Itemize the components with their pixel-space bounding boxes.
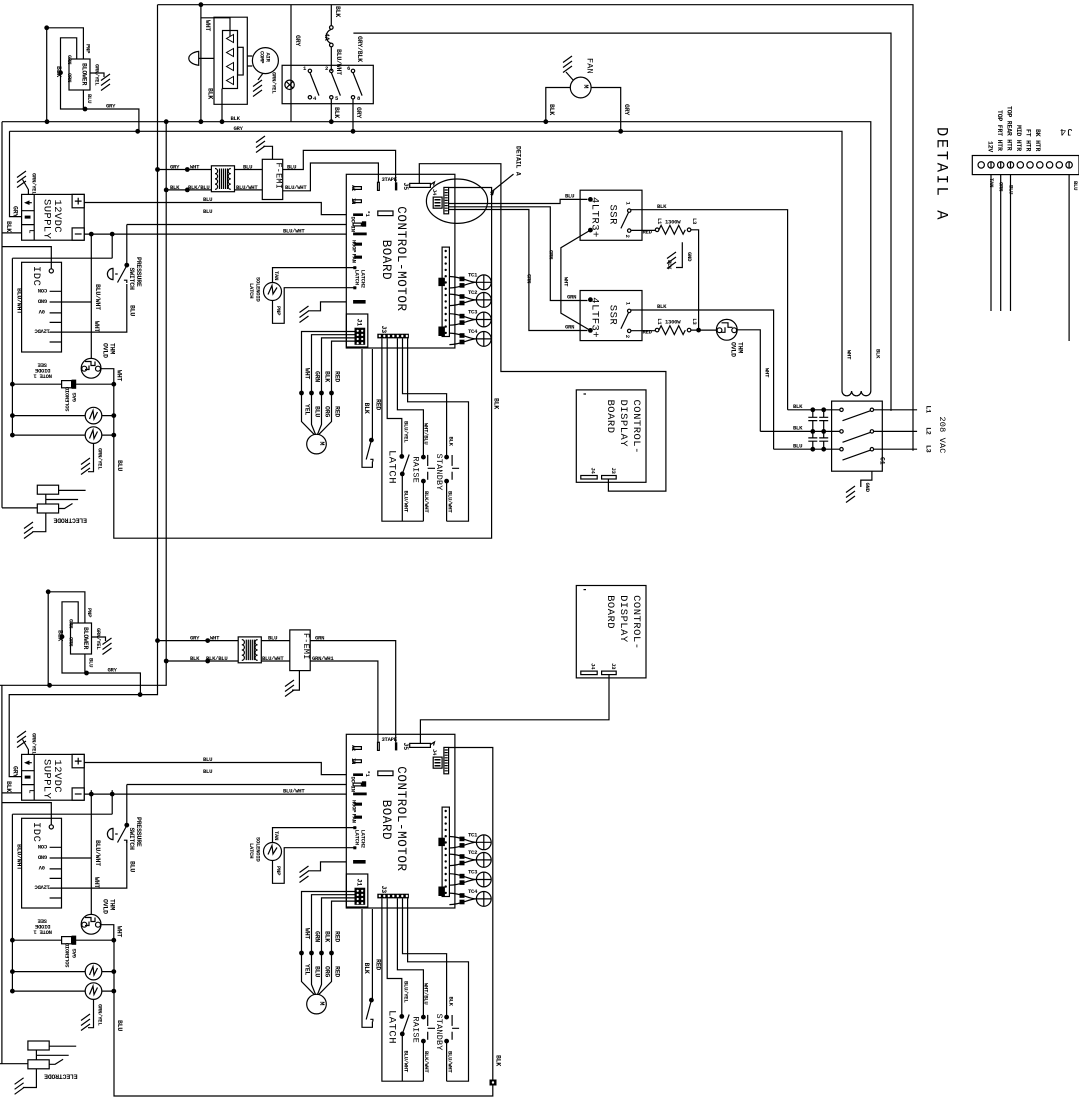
svg-text:WHT: WHT xyxy=(764,368,771,378)
svg-text:BLK/BLU: BLK/BLU xyxy=(188,184,209,191)
svg-text:BLU/YEL: BLU/YEL xyxy=(402,421,409,443)
svg-text:L3: L3 xyxy=(691,218,698,225)
svg-text:WHT: WHT xyxy=(190,163,200,170)
svg-text:BLU: BLU xyxy=(313,406,320,417)
svg-text:BLK: BLK xyxy=(447,437,454,447)
svg-text:GND: GND xyxy=(37,297,47,304)
svg-text:NOTE 1: NOTE 1 xyxy=(33,373,52,380)
svg-text:J5: J5 xyxy=(402,183,409,191)
svg-text:208 VAC: 208 VAC xyxy=(937,417,947,454)
svg-text:BLK: BLK xyxy=(793,425,803,432)
svg-text:F-EMI: F-EMI xyxy=(301,633,311,660)
svg-text:J4: J4 xyxy=(590,468,597,475)
svg-text:GAS: GAS xyxy=(71,392,78,402)
svg-text:GRY/BLK: GRY/BLK xyxy=(356,36,363,62)
svg-text:F-EMI: F-EMI xyxy=(274,163,284,190)
svg-text:BLK: BLK xyxy=(493,398,500,409)
svg-text:BOARD: BOARD xyxy=(379,240,393,281)
svg-text:WHT: WHT xyxy=(93,321,100,332)
svg-text:L2: L2 xyxy=(925,427,932,435)
svg-text:BLK: BLK xyxy=(793,403,803,410)
svg-text:*1: *1 xyxy=(364,211,371,218)
svg-text:L3: L3 xyxy=(925,445,932,453)
svg-text:TAN: TAN xyxy=(988,178,995,187)
svg-text:C1: C1 xyxy=(879,457,886,465)
svg-text:J4: J4 xyxy=(431,189,438,196)
svg-text:IN: IN xyxy=(350,198,357,204)
svg-text:GRN/YEL: GRN/YEL xyxy=(31,173,38,195)
svg-text:DISPLAY: DISPLAY xyxy=(617,400,629,448)
svg-text:GRN: GRN xyxy=(315,634,324,641)
svg-text:TOP REAR HTR: TOP REAR HTR xyxy=(1006,106,1013,151)
svg-text:WHT/BLU: WHT/BLU xyxy=(423,423,430,444)
svg-text:WHT: WHT xyxy=(563,277,570,287)
svg-text:FT HTR: FT HTR xyxy=(1025,129,1032,152)
svg-text:12VDC: 12VDC xyxy=(34,327,50,334)
svg-text:GRN/YEL: GRN/YEL xyxy=(97,448,104,470)
svg-text:AC: AC xyxy=(350,185,357,192)
svg-text:L1: L1 xyxy=(656,218,663,225)
svg-text:BLU/WHT: BLU/WHT xyxy=(403,491,410,513)
svg-text:BLU: BLU xyxy=(243,163,252,170)
svg-text:BLU: BLU xyxy=(203,196,212,203)
svg-text:BK HTR: BK HTR xyxy=(1034,129,1041,152)
svg-text:GRN: GRN xyxy=(66,55,73,64)
svg-text:CONTROL-MOTOR: CONTROL-MOTOR xyxy=(394,206,408,311)
svg-text:LATCH2: LATCH2 xyxy=(360,270,367,289)
svg-text:4LTR3+: 4LTR3+ xyxy=(589,197,601,238)
svg-text:LATCH: LATCH xyxy=(248,283,255,298)
svg-text:1300W: 1300W xyxy=(665,218,681,225)
svg-text:YEL: YEL xyxy=(303,404,310,415)
svg-text:THM: THM xyxy=(737,342,744,353)
svg-text:BLU/WHT: BLU/WHT xyxy=(283,227,305,234)
svg-text:GRY: GRY xyxy=(355,107,362,118)
svg-text:IDC: IDC xyxy=(30,266,42,286)
svg-text:LATCH: LATCH xyxy=(386,450,398,484)
svg-text:CONTROL-: CONTROL- xyxy=(630,400,642,454)
svg-text:M: M xyxy=(318,442,325,446)
svg-text:GND: GND xyxy=(864,483,871,493)
svg-text:BLK: BLK xyxy=(334,6,341,17)
svg-text:BLU: BLU xyxy=(1007,185,1014,194)
svg-text:RED: RED xyxy=(643,228,653,235)
svg-text:GRY: GRY xyxy=(12,206,19,217)
svg-text:ELECTRODE: ELECTRODE xyxy=(53,517,87,524)
svg-text:TC2: TC2 xyxy=(468,289,478,296)
svg-text:BLK/BLU: BLK/BLU xyxy=(206,655,227,662)
svg-text:J1: J1 xyxy=(356,319,363,327)
svg-text:J3: J3 xyxy=(380,326,387,334)
svg-text:OVLD: OVLD xyxy=(102,343,109,358)
svg-text:BLK: BLK xyxy=(55,66,62,77)
svg-text:RED: RED xyxy=(374,399,381,410)
svg-text:M: M xyxy=(582,85,589,89)
svg-text:STANDBY: STANDBY xyxy=(434,454,444,491)
svg-text:BLU/WHT: BLU/WHT xyxy=(262,655,284,662)
svg-text:RED: RED xyxy=(333,406,340,417)
svg-text:WHT: WHT xyxy=(204,20,211,31)
svg-text:GRN: GRN xyxy=(567,294,576,301)
svg-text:HOOP: HOOP xyxy=(351,240,358,253)
svg-text:3TAPE: 3TAPE xyxy=(382,176,398,183)
svg-text:4A: 4A xyxy=(323,33,330,41)
svg-text:WHT: WHT xyxy=(116,370,123,381)
svg-text:GRY: GRY xyxy=(623,104,630,115)
svg-text:BLK: BLK xyxy=(333,107,340,118)
svg-text:BLU: BLU xyxy=(1072,181,1079,190)
svg-text:BLK/WHT: BLK/WHT xyxy=(423,491,430,513)
svg-text:MID HTR: MID HTR xyxy=(1015,125,1022,151)
svg-text:BLU: BLU xyxy=(268,634,277,641)
svg-text:SUPPLY: SUPPLY xyxy=(41,199,53,240)
svg-text:BLK: BLK xyxy=(231,115,241,122)
svg-text:RED: RED xyxy=(333,371,340,382)
svg-text:COMP: COMP xyxy=(259,51,266,64)
svg-text:OVLD: OVLD xyxy=(730,342,737,357)
svg-text:THM: THM xyxy=(109,343,116,354)
svg-text:TC4: TC4 xyxy=(468,328,478,335)
svg-text:GRY: GRY xyxy=(170,163,180,170)
svg-text:L1: L1 xyxy=(925,406,932,414)
svg-text:GND: GND xyxy=(686,252,693,262)
svg-text:DETAIL A: DETAIL A xyxy=(515,146,522,176)
svg-text:BLK: BLK xyxy=(323,371,330,382)
svg-text:BLK: BLK xyxy=(666,260,673,270)
svg-text:J4: J4 xyxy=(1059,125,1073,137)
svg-text:BLU: BLU xyxy=(793,443,802,450)
svg-text:BOARD: BOARD xyxy=(604,400,616,434)
svg-text:BLU: BLU xyxy=(203,208,212,215)
svg-text:DC IN: DC IN xyxy=(350,217,357,232)
svg-text:PNP: PNP xyxy=(85,44,92,54)
svg-text:BLK: BLK xyxy=(190,655,200,662)
svg-text:BLK: BLK xyxy=(657,203,667,210)
svg-text:LATCH: LATCH xyxy=(354,270,361,285)
svg-text:WHT: WHT xyxy=(303,368,310,379)
svg-text:SWITCH: SWITCH xyxy=(128,268,135,291)
svg-text:BLK: BLK xyxy=(495,1055,502,1066)
svg-text:BLK: BLK xyxy=(207,88,214,99)
svg-text:BLU: BLU xyxy=(86,94,93,103)
svg-text:SOLENOID: SOLENOID xyxy=(64,386,71,411)
svg-text:DETAIL A: DETAIL A xyxy=(933,127,951,222)
svg-text:4LTF3+: 4LTF3+ xyxy=(589,297,601,338)
svg-text:BLU: BLU xyxy=(129,305,136,316)
svg-text:CON: CON xyxy=(38,287,47,294)
svg-text:WHT: WHT xyxy=(846,350,853,360)
svg-text:GRN: GRN xyxy=(548,250,555,259)
svg-text:GRN: GRN xyxy=(565,324,574,331)
svg-text:BLU/WHT: BLU/WHT xyxy=(335,49,342,75)
svg-text:PNP: PNP xyxy=(275,306,282,316)
svg-text:ORN: ORN xyxy=(66,73,73,82)
svg-text:GRY: GRY xyxy=(294,35,301,46)
svg-text:0V: 0V xyxy=(38,308,45,315)
svg-text:BLU: BLU xyxy=(116,460,123,471)
svg-text:BLK: BLK xyxy=(363,403,370,414)
svg-text:GRN/YEL: GRN/YEL xyxy=(271,72,278,94)
svg-text:BLK: BLK xyxy=(548,104,555,115)
svg-text:GRN: GRN xyxy=(313,371,320,382)
svg-text:BLU/WHT: BLU/WHT xyxy=(447,491,454,513)
svg-text:BLU/WHT: BLU/WHT xyxy=(285,184,307,191)
svg-text:ORG: ORG xyxy=(323,406,330,417)
svg-text:BLK: BLK xyxy=(657,303,667,310)
svg-text:WHT: WHT xyxy=(210,634,220,641)
svg-text:BLK: BLK xyxy=(170,184,180,191)
svg-text:GRY: GRY xyxy=(234,125,244,132)
svg-text:FAN: FAN xyxy=(585,58,595,74)
svg-text:BLU: BLU xyxy=(287,163,296,170)
svg-text:BLU/WHT: BLU/WHT xyxy=(94,284,101,310)
svg-text:TC1: TC1 xyxy=(468,272,478,279)
svg-text:BLU: BLU xyxy=(116,1020,123,1031)
svg-text:J3: J3 xyxy=(610,468,617,475)
svg-text:BLU/WHT: BLU/WHT xyxy=(236,184,258,191)
svg-text:GRN/WH1: GRN/WH1 xyxy=(312,655,334,662)
svg-text:GRY: GRY xyxy=(190,634,200,641)
svg-text:BLK: BLK xyxy=(875,349,882,359)
svg-text:TOP FRT HTR: TOP FRT HTR xyxy=(996,110,1003,151)
svg-text:BLK: BLK xyxy=(5,221,12,232)
svg-text:BLU/WHT: BLU/WHT xyxy=(16,288,23,314)
svg-text:ORN: ORN xyxy=(998,182,1005,191)
svg-text:BLU: BLU xyxy=(565,193,574,200)
svg-text:BLOWER: BLOWER xyxy=(81,63,88,86)
svg-text:FAN: FAN xyxy=(351,254,358,263)
svg-text:SSR: SSR xyxy=(607,205,619,226)
svg-text:TAN: TAN xyxy=(273,271,280,280)
svg-text:GRN: GRN xyxy=(526,274,533,283)
svg-text:RAISE: RAISE xyxy=(411,457,421,484)
svg-text:GRN/YEL: GRN/YEL xyxy=(94,64,101,86)
svg-text:PRESSURE: PRESSURE xyxy=(135,257,142,287)
svg-text:GRY: GRY xyxy=(106,102,116,109)
svg-text:TC3: TC3 xyxy=(468,309,478,316)
svg-text:12V: 12V xyxy=(987,141,994,152)
svg-text:L: L xyxy=(28,230,35,234)
